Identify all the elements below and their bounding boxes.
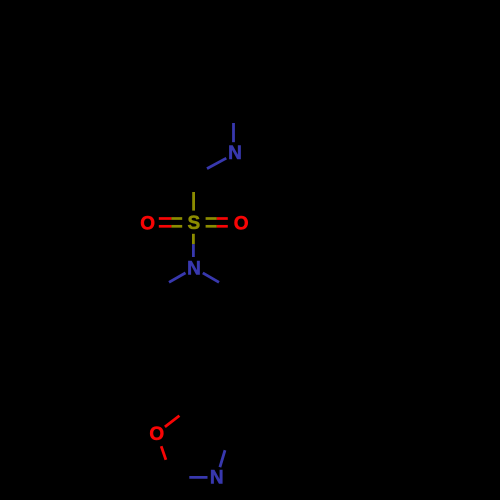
svg-text:O: O [234, 214, 249, 235]
svg-text:S: S [187, 213, 200, 234]
wire: N-half of bond oxazole N3 to C4 (up-right diagonal, blue) [220, 450, 225, 467]
svg-text:N: N [187, 259, 201, 280]
wire: S-half of bond CH2 to S (vertical, olive) [192, 192, 195, 211]
wire: right S=O double bond, upper line, O-half (red) [217, 217, 228, 220]
svg-text:N: N [210, 468, 224, 489]
wire: N-half of bond N to piperidine C2 (down-left diagonal, blue) [169, 273, 186, 282]
svg-text:N: N [228, 143, 242, 164]
wire: left S=O double bond, lower line, O-half (red) [159, 225, 172, 228]
wire: left S=O double bond, upper line, O-half (red) [159, 217, 172, 220]
wire: left S=O double bond, lower line, S-half (olive) [171, 225, 182, 228]
wire: O-half of bond oxazole O1 to C5 (up-right diagonal, red) [165, 416, 180, 427]
wire: N-half of bond from methyl C down to pyridinium-type N (vertical, blue) [232, 123, 235, 142]
wire: N-half of bond S to piperidine N (vertical, blue) [192, 244, 195, 257]
svg-text:O: O [149, 424, 164, 445]
wire: right S=O double bond, lower line, S-half (olive) [206, 225, 217, 228]
wire: O-half of bond oxazole O1 to C2 (down diagonal, red) [161, 446, 166, 460]
wire: left S=O double bond, upper line, S-half (olive) [171, 217, 182, 220]
wire: right S=O double bond, lower line, O-half (red) [217, 225, 228, 228]
wire: N-half of bond oxazole N3 to C2 (horizontal, blue) [189, 476, 207, 479]
svg-text:O: O [140, 214, 155, 235]
wire: N-half of bond N to piperidine C6 (down-right diagonal, blue) [203, 273, 219, 282]
wire: N-half of bond N to CH2 (diagonal, blue) [207, 158, 226, 168]
wire: right S=O double bond, upper line, S-half (olive) [206, 217, 217, 220]
wire: S-half of bond S to piperidine N (vertical, olive) [192, 234, 195, 244]
